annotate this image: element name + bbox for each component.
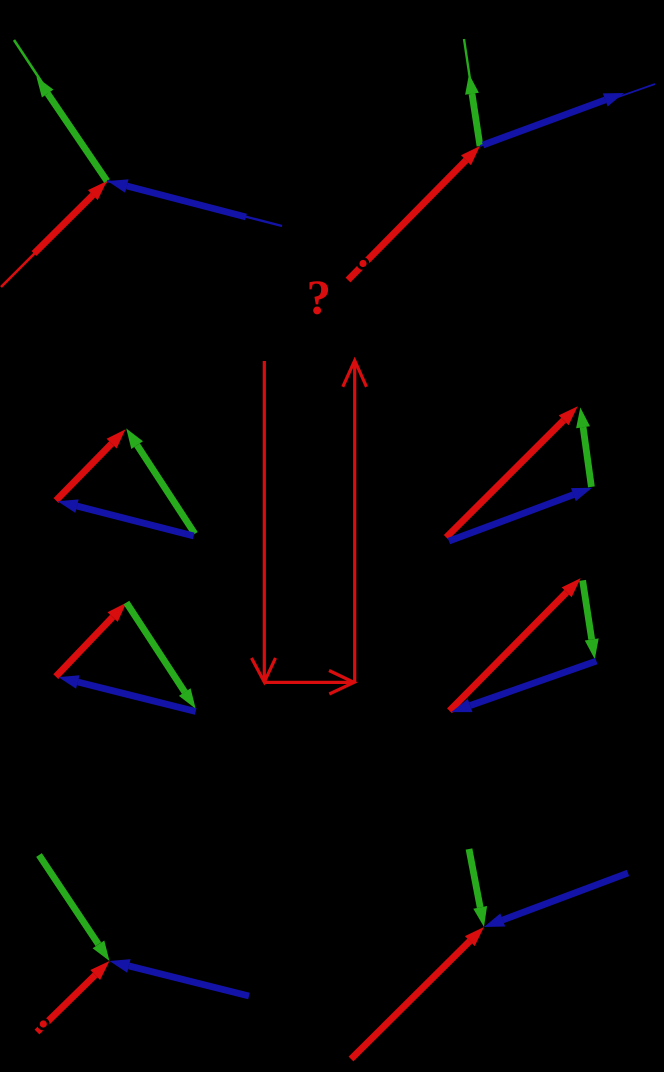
triangle R2 red arrow A->B — [450, 578, 581, 711]
triangle R2 green arrow B->C — [583, 580, 599, 659]
vector TL blue line of action — [107, 181, 282, 226]
triangle R1 red arrow A->B — [446, 406, 578, 537]
flow arrow: across bottom — [264, 671, 354, 695]
vector BL red tail circle marker — [37, 1018, 50, 1031]
vector BL red arrow — [37, 961, 110, 1032]
vector TR blue line of action — [480, 84, 655, 146]
vector TL green line of action — [14, 40, 107, 181]
vector BL blue arrow — [110, 959, 250, 996]
triangle L2 red arrow A->B — [56, 603, 127, 677]
triangle L1 blue arrow C->A — [58, 499, 194, 536]
vector TR red tail circle marker — [357, 257, 370, 270]
vector TR green line of action — [464, 39, 480, 146]
vector TL green arrow — [37, 77, 108, 181]
triangle R2 blue arrow C->A — [451, 661, 596, 712]
vector TR red arrow — [348, 146, 480, 280]
svg-text:?: ? — [307, 270, 332, 325]
vector TL red line of action — [1, 181, 107, 287]
vector TR green arrow — [465, 74, 480, 146]
vector BL green arrow — [39, 855, 110, 961]
triangle L2 blue arrow C->A — [58, 675, 195, 711]
triangle R1 blue arrow A->C — [449, 488, 592, 541]
vector BR blue arrow — [484, 873, 628, 927]
triangle R1 green arrow C->B — [576, 407, 591, 487]
flow arrow: up right side — [343, 361, 367, 683]
vector TL red arrow — [34, 181, 107, 254]
vector TL blue arrow — [108, 179, 247, 217]
vector BR red arrow — [351, 927, 484, 1059]
triangle L1 red arrow A->B — [56, 429, 126, 500]
vector BR green arrow — [469, 849, 487, 927]
triangle L1 green arrow C->B — [126, 428, 195, 533]
flow arrow: down left side — [252, 361, 276, 682]
vector TR blue arrow — [483, 93, 624, 145]
triangle L2 green arrow B->C — [126, 603, 195, 709]
